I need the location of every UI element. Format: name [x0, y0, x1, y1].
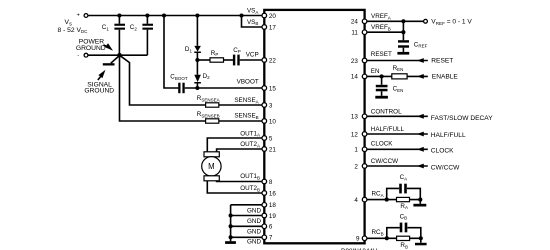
wire CA loop	[387, 188, 400, 199]
svg-text:C1: C1	[102, 24, 110, 31]
svg-text:OUT2A: OUT2A	[240, 141, 260, 148]
svg-text:HALF/FULL: HALF/FULL	[371, 126, 405, 133]
svg-text:14: 14	[351, 74, 359, 81]
svg-text:22: 22	[269, 57, 277, 64]
svg-text:1: 1	[354, 147, 358, 154]
arrow CLOCK	[417, 147, 424, 152]
svg-text:21: 21	[269, 146, 277, 153]
svg-text:CBOOT: CBOOT	[170, 74, 188, 81]
IC U1 package body	[264, 10, 364, 243]
node junction RCB right	[419, 236, 423, 240]
capacitor CREF	[398, 40, 409, 42]
svg-text:19: 19	[269, 213, 277, 220]
wire ground return	[88, 54, 147, 56]
pin 1	[362, 147, 367, 152]
resistor RSENSEA	[206, 103, 219, 107]
wire CONTROL	[367, 115, 428, 117]
wire OUT2B	[207, 181, 262, 193]
wire CB loop	[387, 228, 400, 239]
pin 22	[262, 58, 267, 63]
wire RCA	[367, 199, 420, 201]
svg-text:RSENSEA: RSENSEA	[197, 95, 220, 102]
wire RCB	[367, 237, 421, 239]
node junction VSB/rail	[239, 13, 243, 17]
svg-text:RSENSEB: RSENSEB	[197, 111, 220, 118]
wire VSB drop	[242, 16, 263, 28]
svg-text:C2: C2	[130, 24, 138, 31]
wire GND6	[231, 225, 262, 227]
svg-text:VS: VS	[65, 19, 72, 26]
svg-text:11: 11	[351, 30, 358, 37]
svg-text:10: 10	[269, 118, 277, 125]
svg-text:RCB: RCB	[372, 229, 384, 236]
wire GND18	[231, 204, 262, 206]
svg-text:SENSEB: SENSEB	[234, 113, 258, 120]
svg-text:15: 15	[269, 85, 277, 92]
svg-text:GND: GND	[247, 208, 261, 215]
pin 7	[262, 235, 267, 240]
svg-text:6: 6	[269, 224, 273, 231]
svg-text:VREFA: VREFA	[371, 13, 391, 20]
svg-text:CONTROL: CONTROL	[371, 109, 402, 116]
wire GND19	[231, 215, 262, 217]
node junction VREFA	[401, 19, 405, 23]
arrow RESET	[417, 58, 424, 63]
terminal - supply	[84, 53, 88, 57]
wire HALF/FULL	[367, 133, 428, 135]
pin 14	[362, 74, 367, 79]
wire VREFA	[367, 20, 424, 22]
pin 23	[362, 58, 367, 63]
svg-text:CLOCK: CLOCK	[371, 141, 393, 148]
svg-text:+: +	[77, 12, 80, 18]
node junction RCA left	[385, 198, 389, 202]
pin 19	[262, 213, 267, 218]
motor M terminal box top	[204, 152, 219, 157]
svg-text:D2: D2	[203, 73, 211, 80]
svg-text:12: 12	[351, 131, 359, 138]
node junction RCA right	[418, 198, 422, 202]
svg-text:ENABLE: ENABLE	[432, 74, 459, 81]
svg-text:RESET: RESET	[371, 51, 392, 58]
svg-text:3: 3	[269, 102, 273, 109]
wire VREF vertical tie	[402, 21, 404, 40]
node junction pump/rail	[195, 13, 199, 17]
wire GND ladder vertical	[230, 205, 232, 242]
svg-text:FAST/SLOW DECAY: FAST/SLOW DECAY	[431, 115, 493, 122]
svg-text:CW/CCW: CW/CCW	[371, 158, 398, 165]
wire OUT2A	[217, 149, 262, 152]
svg-text:18: 18	[269, 202, 277, 209]
motor M body	[202, 157, 221, 176]
svg-text:CLOCK: CLOCK	[431, 148, 454, 155]
svg-text:24: 24	[351, 19, 359, 26]
svg-text:5: 5	[269, 135, 273, 142]
pin 20	[262, 13, 267, 18]
ground symbol CEN	[375, 96, 388, 99]
arrow ENABLE	[417, 74, 424, 79]
arrow CONTROL	[417, 114, 424, 119]
svg-text:RCA: RCA	[372, 191, 384, 198]
svg-text:VREFB: VREFB	[371, 24, 391, 31]
arrow CW/CCW	[417, 164, 424, 169]
node junction GND19	[229, 213, 233, 217]
node junction VREFB	[401, 30, 405, 34]
svg-text:SENSEA: SENSEA	[234, 97, 258, 104]
node junction D1/D2/RP	[195, 58, 199, 62]
arrow HALF/FULL	[417, 132, 424, 137]
svg-text:M: M	[208, 162, 215, 171]
node junction C1/rail	[117, 13, 121, 17]
diode D2	[196, 60, 198, 75]
pin 13	[362, 114, 367, 119]
svg-text:CEN: CEN	[393, 86, 404, 93]
terminal VREF	[424, 19, 428, 23]
svg-text:GND: GND	[247, 239, 261, 246]
svg-text:VSB: VSB	[247, 19, 258, 26]
svg-text:D1: D1	[185, 46, 193, 53]
node junction RCB left	[385, 236, 389, 240]
svg-text:16: 16	[269, 190, 277, 197]
pin 8	[262, 179, 267, 184]
wire OUT1A	[207, 138, 262, 152]
svg-text:GND: GND	[247, 218, 261, 225]
svg-text:4: 4	[354, 197, 358, 204]
pin 17	[262, 25, 267, 30]
capacitor CA	[399, 184, 402, 194]
resistor RP	[197, 59, 210, 61]
pin 16	[262, 191, 267, 196]
ground symbol RCA	[419, 200, 421, 204]
resistor REN	[392, 74, 407, 79]
svg-text:VBOOT: VBOOT	[237, 78, 259, 85]
pin 12	[362, 132, 367, 137]
wire RESET	[367, 60, 428, 62]
wire CLOCK	[367, 148, 428, 150]
svg-text:GROUND: GROUND	[76, 45, 106, 52]
svg-text:VREF = 0 - 1 V: VREF = 0 - 1 V	[431, 19, 472, 27]
arrow to signal ground	[98, 76, 101, 80]
svg-text:EN: EN	[371, 68, 380, 75]
wire sense B return	[120, 55, 206, 121]
svg-text:RB: RB	[400, 242, 408, 249]
node junction D2/VBOOT	[195, 86, 199, 90]
pin 21	[262, 147, 267, 152]
pin 9	[362, 236, 367, 241]
svg-text:8: 8	[269, 179, 273, 186]
ground symbol RCB	[420, 238, 422, 243]
svg-text:20: 20	[269, 13, 277, 20]
svg-text:13: 13	[351, 114, 359, 121]
wire sense A return	[120, 55, 206, 105]
wire charge pump branch from rail	[196, 16, 198, 46]
svg-text:HALF/FULL: HALF/FULL	[431, 132, 466, 139]
svg-text:OUT2B: OUT2B	[240, 185, 260, 192]
svg-text:OUT1B: OUT1B	[240, 173, 260, 180]
svg-text:CB: CB	[400, 213, 408, 220]
ground symbol GND ladder	[225, 241, 236, 244]
svg-text:-: -	[77, 53, 79, 59]
svg-text:GROUND: GROUND	[84, 88, 114, 95]
svg-text:RP: RP	[211, 50, 219, 57]
terminal + supply	[84, 14, 88, 18]
svg-text:REN: REN	[393, 65, 404, 72]
svg-text:GND: GND	[247, 228, 261, 235]
svg-text:7: 7	[269, 235, 273, 242]
svg-text:VCP: VCP	[246, 52, 259, 59]
pin 10	[262, 119, 267, 124]
pin 5	[262, 136, 267, 141]
pin 3	[262, 103, 267, 108]
wire boot branch from rail	[164, 16, 178, 89]
node junction boot/rail	[162, 13, 166, 17]
svg-text:OUT1A: OUT1A	[240, 130, 260, 137]
svg-text:CA: CA	[400, 174, 408, 181]
wire VREFB	[367, 31, 403, 33]
pin 11	[362, 30, 367, 35]
svg-text:RA: RA	[400, 203, 408, 210]
svg-text:9: 9	[356, 236, 360, 243]
capacitor CB	[400, 223, 403, 233]
svg-text:2: 2	[354, 163, 358, 170]
pin 6	[262, 224, 267, 229]
svg-text:CW/CCW: CW/CCW	[431, 164, 460, 171]
signal ground symbol	[111, 56, 120, 64]
arrow to power ground node	[104, 45, 108, 47]
capacitor CBOOT	[178, 83, 180, 94]
pin 18	[262, 203, 267, 208]
wire EN	[367, 75, 392, 77]
node junction EN/CEN	[380, 74, 384, 78]
node junction GND7	[229, 235, 233, 239]
resistor RSENSEB	[206, 119, 219, 123]
wire GND7	[231, 236, 262, 238]
node power ground junction	[117, 53, 122, 58]
pin 2	[362, 164, 367, 169]
svg-text:17: 17	[269, 24, 277, 31]
svg-text:8 - 52 VDC: 8 - 52 VDC	[58, 27, 89, 34]
capacitor CP	[233, 55, 235, 66]
resistor RB	[397, 236, 410, 240]
capacitor C2	[146, 16, 148, 24]
wire CW/CCW	[367, 165, 428, 167]
motor M terminal box bottom	[204, 176, 219, 181]
wire OUT1B	[217, 180, 262, 183]
svg-text:CREF: CREF	[414, 41, 428, 48]
node junction GND6	[229, 224, 233, 228]
svg-text:23: 23	[351, 58, 359, 65]
svg-text:VSA: VSA	[247, 8, 258, 15]
wire VS rail top	[88, 15, 262, 17]
pin 4	[362, 197, 367, 202]
pin 24	[362, 19, 367, 24]
capacitor C1	[118, 16, 120, 24]
svg-text:CP: CP	[233, 47, 241, 54]
capacitor CEN	[381, 76, 383, 84]
diode D1	[194, 46, 201, 52]
pin 15	[262, 86, 267, 91]
svg-text:RESET: RESET	[431, 58, 453, 65]
node junction C2/rail	[145, 13, 149, 17]
resistor RA	[397, 197, 410, 201]
ground symbol CREF	[397, 52, 409, 55]
